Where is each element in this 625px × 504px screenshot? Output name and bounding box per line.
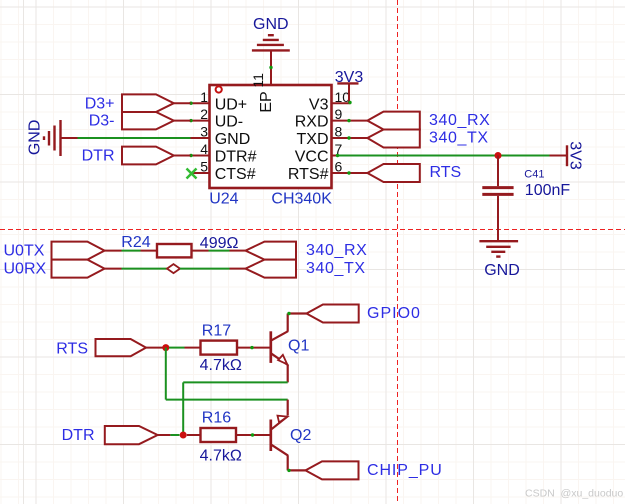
svg-text:GND: GND (253, 16, 289, 33)
svg-text:RXD: RXD (295, 114, 329, 131)
wire RTS junction to Q2 emitter (165, 348, 167, 400)
flag CHIP_PU (306, 461, 359, 479)
svg-text:4: 4 (200, 141, 208, 157)
svg-text:4.7kΩ: 4.7kΩ (200, 357, 242, 374)
svg-text:GND: GND (215, 131, 251, 148)
svg-text:499Ω: 499Ω (200, 235, 239, 252)
svg-text:V3: V3 (309, 96, 329, 113)
svg-text:UD-: UD- (215, 114, 243, 131)
svg-text:1: 1 (200, 89, 208, 105)
svg-text:340_TX: 340_TX (429, 129, 489, 146)
svg-text:4.7kΩ: 4.7kΩ (200, 447, 242, 464)
svg-text:U24: U24 (209, 191, 238, 208)
wire DTR to junction (158, 434, 171, 436)
wire junction to R17 (169, 347, 185, 349)
flag RTS right (367, 164, 419, 182)
svg-text:U0TX: U0TX (4, 243, 45, 260)
ground GND right symbol (479, 241, 518, 256)
wire U0TX to R24 (105, 250, 122, 252)
svg-text:CSDN @xu_duoduo: CSDN @xu_duoduo (525, 487, 623, 499)
pin 5 stub (191, 172, 210, 174)
svg-text:CH340K: CH340K (271, 191, 332, 208)
svg-text:Q1: Q1 (288, 338, 309, 355)
svg-text:EP: EP (258, 91, 275, 112)
svg-text:11: 11 (250, 73, 266, 88)
svg-text:DTR: DTR (82, 148, 115, 165)
svg-text:100nF: 100nF (525, 182, 571, 199)
resistor R16 (201, 428, 237, 442)
junction VCC node (495, 152, 502, 159)
wire RTS to junction (146, 347, 166, 349)
wire DTR to pin4 (174, 155, 191, 157)
svg-text:RTS: RTS (430, 164, 462, 181)
svg-text:U0RX: U0RX (4, 261, 47, 278)
wire R16 to Q2 base (236, 434, 270, 436)
svg-text:UD+: UD+ (215, 96, 247, 113)
capacitor C41 (497, 156, 499, 187)
svg-text:Q2: Q2 (290, 427, 311, 444)
power 3V3 right stub (550, 155, 568, 157)
partition dashed line horizontal (0, 229, 625, 231)
wire D3- to pin2 (174, 120, 191, 122)
wire R24 to 340_RX (192, 250, 209, 252)
transistor Q1 (271, 314, 307, 383)
svg-text:D3+: D3+ (85, 95, 115, 112)
transistor Q1 emitter arrow (278, 354, 289, 364)
power 3V3 pin10 (332, 102, 351, 104)
wire junction to R16 (187, 434, 201, 436)
resistor R17 (201, 341, 238, 355)
flag 340_TX top (367, 130, 419, 148)
flag U0TX (52, 242, 105, 260)
flag RTS mid (96, 339, 147, 356)
pin 1 indicator circle (216, 86, 222, 92)
transistor Q2 emitter arrow (277, 414, 288, 423)
flag D3- (122, 112, 174, 129)
diamond marker on U0RX net (167, 264, 180, 273)
wire pin11 to ground (270, 50, 272, 85)
svg-text:GND: GND (484, 262, 520, 279)
partition dashed line vertical full (397, 0, 399, 504)
svg-text:VCC: VCC (295, 149, 329, 166)
wire U0RX right segment (180, 268, 230, 270)
wire GND to pin3 (78, 137, 191, 139)
svg-text:R16: R16 (202, 409, 231, 426)
svg-text:D3-: D3- (89, 113, 115, 130)
svg-text:GPIO0: GPIO0 (367, 305, 421, 322)
svg-text:CTS#: CTS# (215, 166, 256, 183)
wire Q2 collector corner dot (287, 469, 290, 472)
wire R17 to Q1 base (237, 347, 270, 349)
wire VCC rail green (337, 155, 550, 157)
junction RTS node (162, 344, 169, 351)
ground GND top symbol (252, 35, 290, 50)
wire pin9 (332, 120, 368, 122)
pin 4 stub (191, 155, 210, 157)
svg-text:3: 3 (200, 124, 208, 140)
op-amp U24 IC body CH340K (210, 85, 332, 188)
wire D3+ to pin1 (174, 102, 191, 104)
svg-text:C41: C41 (524, 169, 544, 181)
svg-text:DTR#: DTR# (215, 149, 257, 166)
no-connect X on pin 5 (187, 169, 197, 179)
svg-text:DTR: DTR (62, 427, 95, 444)
wire GND stub (61, 137, 78, 139)
flag 340_TX bottom (246, 260, 297, 278)
junction DTR node (180, 432, 187, 439)
pin 2 stub (191, 120, 210, 122)
svg-text:3V3: 3V3 (335, 69, 364, 86)
flag U0RX (52, 260, 105, 278)
pin 1 stub (191, 102, 210, 104)
wire pin8 (332, 137, 368, 139)
svg-text:R17: R17 (202, 323, 231, 340)
svg-text:340_RX: 340_RX (306, 242, 367, 259)
svg-text:R24: R24 (121, 234, 150, 251)
flag 340_RX bottom (246, 242, 297, 260)
svg-text:5: 5 (200, 159, 208, 175)
wire Q1 emitter to DTR junction (183, 381, 288, 383)
flag 340_RX top (367, 112, 419, 130)
ground GND left symbol (44, 120, 61, 156)
wire Q1 collector corner dot (287, 312, 290, 315)
svg-text:CHIP_PU: CHIP_PU (367, 462, 443, 479)
wire pin6 (332, 172, 368, 174)
svg-text:TXD: TXD (297, 131, 329, 148)
flag GPIO0 (307, 305, 359, 323)
flag DTR bottom (105, 426, 158, 444)
svg-text:RTS: RTS (56, 340, 88, 357)
flag D3+ (122, 94, 174, 112)
transistor Q2 (271, 416, 306, 470)
svg-text:GND: GND (27, 120, 44, 156)
svg-text:2: 2 (200, 106, 208, 122)
wire pin7 VCC stub (332, 155, 337, 157)
svg-text:RTS#: RTS# (288, 166, 329, 183)
resistor R24 (157, 244, 192, 257)
pin 3 stub (191, 137, 210, 139)
svg-text:340_TX: 340_TX (306, 260, 366, 277)
svg-text:3V3: 3V3 (567, 141, 584, 170)
svg-text:340_RX: 340_RX (429, 112, 490, 129)
wire U0RX left segment (105, 268, 122, 270)
flag DTR top (122, 147, 174, 165)
